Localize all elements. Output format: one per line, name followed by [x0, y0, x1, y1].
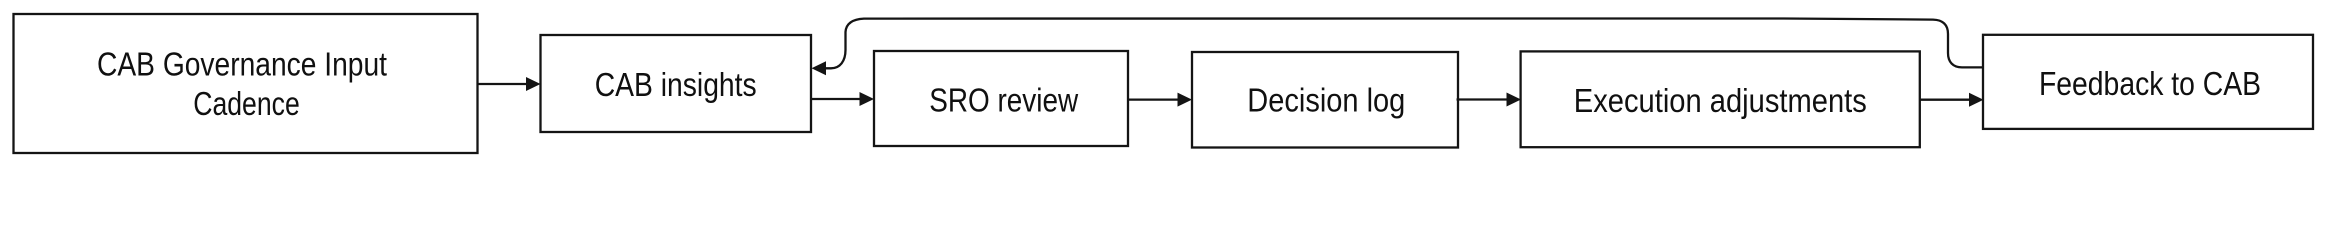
svg-text:Feedback to CAB: Feedback to CAB	[2039, 65, 2261, 102]
edge: Execution adjustments -> Feedback to CAB	[1920, 93, 1984, 107]
edge: Feedback to CAB -> CAB insights (feedback loop over top)	[812, 17, 1984, 75]
node: CAB insights	[541, 35, 812, 132]
svg-text:CAB Governance Input: CAB Governance Input	[97, 46, 387, 83]
edge: Decision log -> Execution adjustments	[1457, 93, 1522, 107]
svg-text:CAB insights: CAB insights	[595, 66, 757, 103]
svg-text:SRO review: SRO review	[929, 81, 1078, 118]
edge: SRO review -> Decision log	[1128, 93, 1192, 107]
node: Execution adjustments	[1521, 51, 1920, 147]
edge: CAB Governance Input Cadence -> CAB insights	[478, 77, 541, 91]
svg-text:Decision log: Decision log	[1247, 81, 1405, 118]
node: Decision log	[1192, 52, 1458, 148]
node: CAB Governance Input Cadence	[14, 14, 478, 153]
svg-text:Execution adjustments: Execution adjustments	[1574, 82, 1867, 119]
svg-text:Cadence: Cadence	[193, 85, 300, 122]
edge: CAB insights -> SRO review	[811, 92, 874, 106]
node: Feedback to CAB	[1983, 35, 2313, 129]
node: SRO review	[874, 51, 1128, 146]
